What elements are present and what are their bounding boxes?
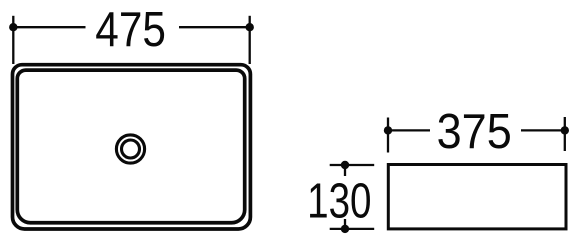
drain outer circle xyxy=(116,135,144,163)
dim 475: right dot xyxy=(246,23,254,31)
dim 475: right extension line xyxy=(249,16,251,64)
dim 130: bottom extension line xyxy=(330,228,375,230)
dim 375: right dot xyxy=(561,126,569,134)
svg-text:130: 130 xyxy=(307,174,371,229)
dim 375: left extension line xyxy=(387,118,389,153)
svg-text:375: 375 xyxy=(437,104,512,159)
dim 475: dimension line left segment xyxy=(13,26,85,28)
drain inner circle xyxy=(122,140,140,158)
dim 130: dimension line top stub xyxy=(344,165,346,176)
svg-text:475: 475 xyxy=(95,1,166,57)
dim 130: top dot xyxy=(341,161,349,169)
dim 130: bottom dot xyxy=(341,225,349,233)
basin side view outline xyxy=(388,165,566,229)
dim 475: left dot xyxy=(9,23,17,31)
dim 375: dimension line left segment xyxy=(388,129,430,131)
dim 375: dimension line right segment xyxy=(521,129,565,131)
dim 130: dimension line bottom stub xyxy=(344,219,346,229)
dim 130: top extension line xyxy=(330,164,375,166)
dim 375: left dot xyxy=(384,126,392,134)
dim 475: dimension line right segment xyxy=(179,26,250,28)
dim 375: right extension line xyxy=(564,117,566,151)
dim 475: left extension line xyxy=(12,16,14,64)
basin top view: outer rim xyxy=(13,65,251,229)
basin top view: inner rim xyxy=(17,70,244,223)
